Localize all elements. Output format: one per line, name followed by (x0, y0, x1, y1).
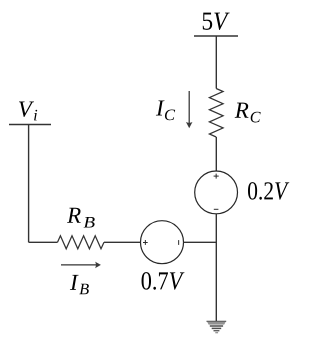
current label IB (70, 275, 79, 290)
current arrow IC (down) (186, 91, 193, 128)
minus mark (right) (178, 240, 180, 245)
minus mark (bottom) (214, 208, 219, 210)
node Vi label (19, 102, 34, 117)
resistor RC (209, 89, 223, 138)
node 5V label (203, 13, 230, 30)
current label IC (156, 100, 165, 115)
plus mark (left) (143, 240, 148, 245)
wire source 0.2V to ground (through junction) (215, 214, 217, 322)
voltage source 0.2V circle (195, 171, 238, 214)
label RC (235, 103, 249, 118)
wire 5V rail to resistor RC (215, 36, 217, 89)
plus mark (top) (214, 174, 219, 179)
wire RC to source 0.2V (215, 137, 217, 171)
label 0.2V (248, 182, 289, 200)
label RB (67, 208, 81, 223)
power rail 5V bar (194, 35, 238, 37)
wire source 0.7V to junction (184, 241, 217, 243)
wire to resistor RB (29, 241, 58, 243)
wire Vi rail down (28, 125, 30, 243)
resistor RB (58, 236, 105, 249)
current arrow IB (right) (61, 262, 101, 269)
label 0.7V (142, 272, 185, 290)
wire RB to source 0.7V (104, 241, 141, 243)
ground (207, 321, 227, 332)
input rail Vi bar (9, 124, 51, 126)
voltage source 0.7V circle (141, 221, 184, 264)
